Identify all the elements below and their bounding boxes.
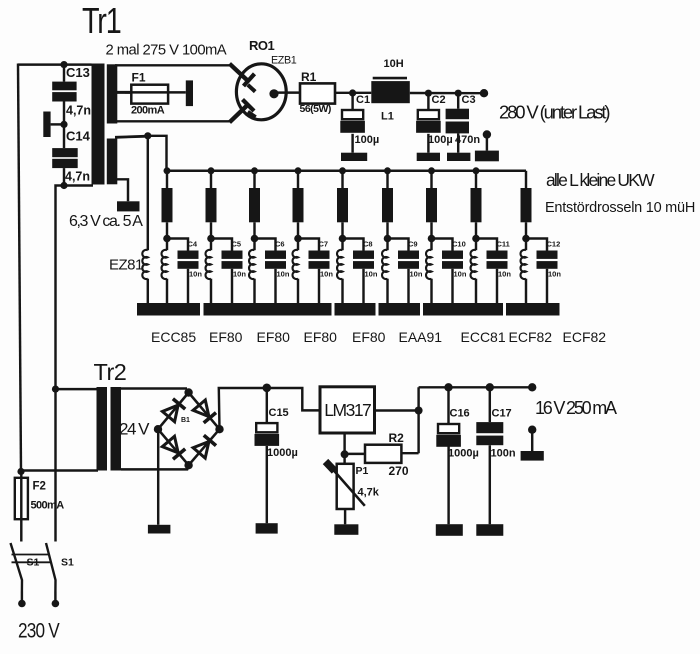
wire	[351, 93, 353, 110]
ground bus bar segment	[379, 303, 421, 316]
svg-text:ECF82: ECF82	[563, 329, 607, 345]
terminal 280V minus	[483, 130, 491, 138]
wire LM317 output	[375, 409, 419, 411]
resistor R2	[365, 445, 401, 463]
svg-text:L1: L1	[381, 111, 394, 123]
svg-text:10n: 10n	[277, 270, 290, 279]
svg-text:10H: 10H	[384, 58, 404, 70]
ground bar P1	[334, 524, 358, 535]
svg-text:500mA: 500mA	[31, 500, 65, 512]
wire	[266, 388, 268, 423]
wire HV bottom rail	[115, 120, 233, 122]
switch S1 pole 1 blade	[11, 543, 23, 592]
svg-text:R1: R1	[301, 70, 317, 84]
wire	[266, 446, 268, 523]
ground bar C3	[447, 153, 470, 161]
wire R1 to L1	[335, 92, 371, 94]
wire	[21, 592, 23, 601]
fuse F1	[131, 85, 168, 104]
heater filter cell C12	[521, 171, 562, 305]
wire	[147, 279, 149, 305]
wire	[447, 447, 449, 525]
heater filter cell C9	[382, 167, 423, 305]
transformer Tr1 6.3V winding	[107, 139, 118, 185]
terminal mains L	[18, 600, 26, 608]
wire	[63, 168, 65, 185]
svg-text:24 V: 24 V	[119, 420, 150, 439]
wire adjust to R2	[345, 453, 365, 455]
potentiometer P1 4,7k	[326, 462, 380, 510]
heater filter cell C11	[471, 167, 512, 305]
tube upper cathode stroke	[248, 85, 255, 92]
node C2	[425, 90, 432, 97]
fuse F2	[15, 478, 28, 519]
capacitor C2	[416, 94, 453, 146]
svg-text:6,3 V ca. 5 A: 6,3 V ca. 5 A	[69, 213, 143, 230]
svg-text:10n: 10n	[548, 270, 561, 279]
ground bar 16V minus	[521, 451, 544, 461]
heater filter cell C6	[249, 167, 290, 305]
terminal 16V plus	[528, 383, 536, 391]
svg-text:100µ: 100µ	[428, 134, 453, 146]
wire	[63, 65, 65, 82]
svg-text:C9: C9	[408, 240, 418, 249]
svg-text:EF80: EF80	[257, 329, 291, 345]
svg-text:EF80: EF80	[209, 329, 243, 345]
svg-text:C3: C3	[462, 94, 476, 106]
svg-text:2 mal 275 V 100mA: 2 mal 275 V 100mA	[106, 43, 227, 59]
svg-text:C5: C5	[232, 240, 242, 249]
ground bus bar segment	[204, 303, 332, 316]
svg-text:100n: 100n	[491, 448, 516, 460]
svg-text:EF80: EF80	[352, 329, 386, 345]
heater filter cell C8	[337, 167, 378, 305]
wire 6.3V winding to chassis	[117, 179, 128, 201]
svg-text:56(5W): 56(5W)	[300, 103, 331, 115]
svg-text:EZB1: EZB1	[271, 55, 297, 67]
transformer Tr1 primary winding	[92, 64, 105, 185]
svg-text:Tr2: Tr2	[94, 359, 127, 385]
svg-text:ECC85: ECC85	[151, 329, 196, 345]
wire	[63, 124, 65, 148]
svg-text:EAA91: EAA91	[399, 329, 443, 345]
chassis terminal bar F1	[186, 80, 193, 106]
ground bus bar segment	[506, 303, 560, 316]
node C13-C14 midpoint	[60, 121, 67, 128]
node LM317 output riser	[415, 407, 423, 415]
wire through fuse	[125, 91, 186, 93]
svg-text:280 V (unter Last): 280 V (unter Last)	[499, 102, 610, 123]
svg-text:10n: 10n	[454, 270, 467, 279]
wire	[531, 430, 533, 451]
wire 6.3V tap	[115, 136, 148, 137]
wire	[427, 134, 429, 153]
tube lower diode bar	[243, 100, 255, 112]
wire to heater bus	[148, 136, 167, 171]
wire to chassis stub	[51, 123, 64, 125]
svg-text:Entstördrosseln 10 müH: Entstördrosseln 10 müH	[545, 200, 695, 216]
svg-text:10n: 10n	[365, 270, 378, 279]
svg-text:F2: F2	[33, 481, 46, 493]
svg-text:10n: 10n	[410, 270, 423, 279]
wire Tr2 secondary bottom to bridge	[121, 465, 189, 469]
wire HV top rail	[115, 64, 232, 66]
svg-text:B1: B1	[181, 417, 190, 424]
ground bus bar segment	[335, 303, 376, 316]
svg-text:4,7k: 4,7k	[358, 487, 380, 499]
inductor EZ81 heater coil	[142, 250, 147, 279]
svg-text:C4: C4	[188, 240, 198, 249]
svg-text:Tr1: Tr1	[82, 0, 121, 41]
ground bus bar segment	[137, 303, 200, 316]
wire	[489, 387, 491, 422]
node C1	[349, 89, 356, 96]
wire	[54, 592, 56, 601]
svg-text:100µ: 100µ	[355, 134, 380, 146]
svg-text:C10: C10	[452, 240, 466, 249]
heater filter cell C10	[426, 167, 467, 305]
svg-text:C14: C14	[66, 129, 91, 144]
chassis terminal bar	[43, 112, 50, 138]
node adjust	[341, 450, 349, 458]
wire top rail to Tr1 primary	[18, 63, 92, 65]
wire	[351, 134, 353, 153]
capacitor C17 100n	[476, 408, 516, 460]
node 6.3V	[144, 132, 151, 139]
wire bridge minus to ground	[157, 429, 159, 525]
svg-text:10n: 10n	[320, 270, 333, 279]
wire mains N vertical	[56, 186, 65, 390]
ground bar C1	[341, 153, 367, 161]
node C17	[486, 383, 494, 391]
capacitor C13	[52, 65, 91, 118]
svg-text:4,7n: 4,7n	[66, 104, 91, 118]
svg-text:10n: 10n	[233, 270, 246, 279]
wire	[489, 445, 491, 524]
svg-text:C16: C16	[450, 408, 470, 420]
svg-text:EF80: EF80	[304, 329, 338, 345]
tube lower anode lead	[230, 106, 248, 123]
heater filter cell C5	[206, 167, 247, 305]
svg-text:C2: C2	[432, 94, 446, 106]
wire riser	[417, 387, 419, 453]
wire mains N to switch	[54, 389, 56, 541]
svg-text:C8: C8	[363, 240, 373, 249]
capacitor C16	[436, 408, 479, 460]
wire	[447, 387, 449, 424]
transformer Tr1 HV secondary winding	[107, 64, 118, 123]
transformer Tr2 secondary winding	[111, 387, 122, 471]
heater filter cell C7	[293, 167, 334, 305]
chassis bar 6.3V	[117, 201, 140, 211]
switch coupling line	[12, 561, 51, 563]
svg-text:S1: S1	[61, 557, 74, 569]
capacitor C14	[52, 129, 90, 184]
wire through fuse F2	[20, 472, 22, 542]
wire LM317 adjust	[343, 433, 345, 464]
ground bar bridge	[148, 525, 171, 534]
node mains L / Tr2 primary bottom	[17, 468, 24, 475]
wire	[427, 93, 429, 110]
tube upper anode lead	[230, 64, 248, 81]
inductor L1 10H	[371, 58, 410, 123]
wire Tr2 secondary top to bridge	[121, 387, 187, 389]
svg-text:alle L kleine UKW: alle L kleine UKW	[546, 170, 655, 190]
tube upper diode bar	[244, 74, 255, 86]
svg-text:RO1: RO1	[249, 38, 275, 53]
regulator LM317	[320, 387, 375, 433]
wire R2 to output riser	[401, 452, 418, 454]
svg-text:C13: C13	[66, 65, 90, 80]
terminal mains N	[52, 600, 60, 608]
switch S1 pole 2 blade	[46, 543, 56, 592]
wire tube to R1	[278, 91, 302, 93]
node C15	[263, 384, 272, 393]
svg-text:C15: C15	[269, 407, 289, 419]
wire 16V output rail	[419, 386, 533, 388]
wire mains L vertical	[18, 64, 21, 472]
switch coupling line	[12, 554, 51, 556]
svg-text:1000µ: 1000µ	[448, 448, 479, 460]
wire EZ81 heater	[147, 136, 149, 250]
wire to Tr1 primary bottom	[64, 184, 93, 186]
wire to Tr2 primary top	[56, 388, 97, 390]
svg-text:10n: 10n	[498, 270, 511, 279]
svg-text:C6: C6	[275, 240, 285, 249]
svg-text:270: 270	[389, 464, 409, 478]
node C3	[455, 90, 462, 97]
wire	[457, 133, 459, 152]
ground bus bar segment	[423, 303, 503, 316]
svg-text:10n: 10n	[189, 270, 202, 279]
capacitor C1	[340, 94, 379, 146]
svg-text:LM317: LM317	[324, 400, 371, 420]
svg-text:P1: P1	[356, 465, 369, 477]
wire	[457, 93, 459, 109]
svg-text:200mA: 200mA	[131, 105, 165, 117]
svg-text:EZ81: EZ81	[109, 257, 143, 274]
ground bar C15	[256, 523, 278, 533]
svg-text:C12: C12	[547, 240, 561, 249]
node C14 bottom / primary bottom	[60, 182, 67, 189]
terminal 16V minus	[528, 426, 536, 434]
svg-text:1000µ: 1000µ	[267, 447, 298, 459]
svg-text:C1: C1	[356, 94, 370, 106]
wire bridge plus to LM317 input	[219, 388, 320, 429]
wire	[63, 102, 65, 125]
svg-text:S1: S1	[27, 557, 40, 569]
wire	[486, 135, 488, 151]
ground bar C16	[436, 524, 463, 536]
node C13 top	[60, 61, 67, 68]
wire to Tr2 primary bottom	[21, 469, 98, 471]
ground bar C2	[417, 153, 440, 161]
ground bar 280V minus	[475, 151, 499, 162]
heater bus 6.3V	[167, 170, 527, 173]
svg-text:C17: C17	[492, 408, 512, 420]
tube cathode terminal	[269, 89, 278, 98]
transformer Tr2 primary winding	[97, 387, 108, 471]
capacitor C15	[255, 407, 298, 459]
wire L1 to output	[410, 92, 484, 95]
svg-text:ECC81: ECC81	[461, 329, 506, 345]
terminal 280V plus	[480, 89, 488, 97]
wire HV center tap	[115, 91, 131, 94]
tube lower cathode stroke	[248, 112, 256, 117]
svg-text:4,7n: 4,7n	[65, 170, 90, 184]
rectifier tube RO1 EZB1 envelope	[236, 64, 286, 120]
heater filter cell C4	[162, 167, 203, 305]
capacitor C3 470n	[446, 94, 481, 146]
svg-text:C7: C7	[319, 240, 329, 249]
node Tr2 primary top	[52, 386, 59, 393]
svg-text:R2: R2	[389, 431, 405, 445]
svg-text:230 V: 230 V	[18, 619, 60, 643]
svg-text:16 V 250 mA: 16 V 250 mA	[535, 398, 617, 418]
svg-text:ECF82: ECF82	[509, 329, 553, 345]
ground bar C17	[476, 524, 503, 536]
node C16	[444, 383, 452, 391]
svg-text:F1: F1	[132, 71, 146, 85]
wire P1 to ground	[344, 509, 346, 524]
bridge rectifier B1	[154, 388, 224, 469]
resistor R1	[300, 83, 335, 103]
svg-text:C11: C11	[497, 240, 510, 249]
